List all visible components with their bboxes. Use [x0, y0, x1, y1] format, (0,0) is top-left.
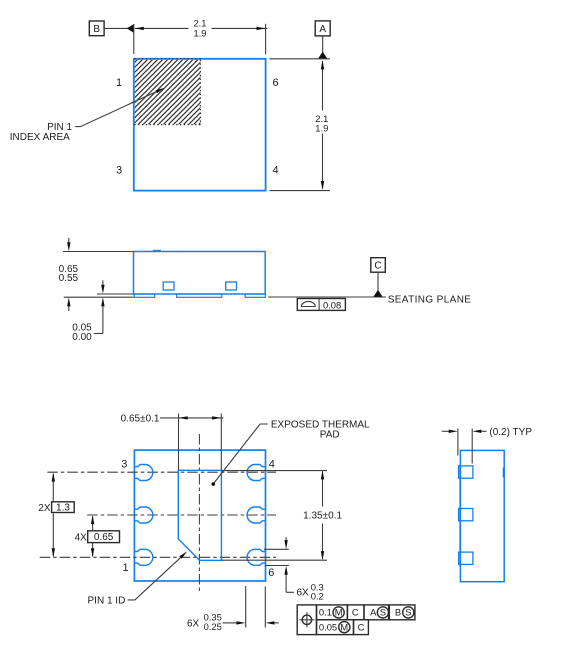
- dimension 1.35±0.1 line and arrows: [321, 470, 324, 560]
- svg-text:0.25: 0.25: [204, 621, 222, 632]
- pin 1 index area hatch: [135, 60, 201, 125]
- dimension 0.05/0.00 arrows: [94, 280, 105, 333]
- side view terminal right: [226, 282, 237, 290]
- feature control frame position tolerance: [297, 605, 415, 635]
- dimension 4X 0.65 line and arrows: [91, 515, 94, 557]
- dimension 6X 0.3/0.2 arrows and leader: [284, 537, 294, 592]
- bottom view package outline: [134, 450, 265, 581]
- center line pad row 2-5: [87, 514, 276, 516]
- exposed thermal pad outline with pin1 chamfer: [178, 470, 221, 560]
- extension line bottom-right corner: [270, 190, 331, 192]
- svg-text:A: A: [370, 607, 377, 618]
- svg-text:PIN 1 ID: PIN 1 ID: [88, 596, 126, 607]
- dimension 6X 0.35/0.25 extension lines: [245, 586, 247, 628]
- datum A leader line: [322, 36, 324, 53]
- center line vertical: [198, 434, 200, 591]
- side view lead tab middle: [177, 294, 222, 297]
- dimension 2.1/1.9 horizontal line: [135, 27, 268, 30]
- dimension (0.2) TYP arrows: [442, 430, 487, 433]
- svg-text:0.05: 0.05: [319, 622, 337, 633]
- dimension 6X 0.3/0.2 extension lines: [264, 548, 289, 550]
- svg-text:6: 6: [268, 567, 274, 579]
- detail view right edge tick: [503, 468, 505, 478]
- svg-text:0.65: 0.65: [94, 532, 114, 543]
- svg-text:M: M: [340, 623, 348, 633]
- extension line body bottom left: [97, 293, 134, 295]
- center line pad row 3-4: [47, 471, 276, 473]
- pad 3 (top left): [134, 465, 152, 481]
- detail view lead tab 2: [459, 509, 473, 521]
- datum C leader line: [377, 272, 379, 291]
- extension line left of top dimension: [133, 24, 135, 54]
- svg-text:PAD: PAD: [320, 430, 340, 441]
- side view package body: [134, 252, 266, 295]
- svg-text:0.00: 0.00: [72, 332, 92, 343]
- svg-text:INDEX AREA: INDEX AREA: [10, 132, 70, 143]
- detail view lead tab 1: [459, 466, 473, 478]
- datum B triangle: [127, 24, 134, 33]
- pad 6 (bottom right): [247, 549, 265, 565]
- side view lead tab right: [245, 294, 265, 297]
- detail view body: [460, 450, 504, 581]
- pad 2 (middle left): [134, 507, 152, 523]
- datum A symbol box: [315, 21, 330, 36]
- svg-text:4: 4: [272, 164, 278, 176]
- svg-text:1: 1: [122, 562, 128, 574]
- svg-text:6X: 6X: [297, 588, 310, 599]
- center line pad row 1-6: [40, 556, 276, 558]
- hatch boundary dotted edge top: [134, 58, 200, 60]
- seating plane line left: [64, 296, 134, 298]
- datum B symbol box: [89, 21, 104, 36]
- svg-text:SEATING PLANE: SEATING PLANE: [388, 295, 472, 306]
- extension line body top left: [63, 251, 133, 253]
- pin 1 index area leader: [75, 88, 164, 127]
- detail view lead side surface: [459, 465, 461, 567]
- pad 4 (top right): [247, 465, 265, 481]
- svg-text:C: C: [358, 622, 365, 633]
- svg-text:3: 3: [121, 459, 127, 471]
- dimension 0.65/0.55 arrows: [67, 238, 70, 311]
- svg-text:0.55: 0.55: [59, 273, 79, 284]
- svg-text:4: 4: [269, 459, 275, 471]
- side view mold tick on top edge: [153, 250, 161, 252]
- datum A triangle: [318, 52, 328, 59]
- svg-text:2X: 2X: [38, 503, 51, 514]
- pad 5 (middle right): [247, 507, 265, 523]
- svg-text:C: C: [352, 607, 359, 618]
- hatch boundary dotted edge bottom: [134, 124, 200, 126]
- dimension 2X 1.3 line and arrows: [52, 473, 55, 558]
- svg-text:1.9: 1.9: [315, 123, 328, 134]
- svg-text:6: 6: [272, 77, 278, 89]
- svg-text:1: 1: [116, 77, 122, 89]
- pad 1 (bottom left): [134, 549, 152, 565]
- svg-text:0.65±0.1: 0.65±0.1: [121, 413, 160, 424]
- dimension 2.1/1.9 vertical line: [321, 60, 324, 190]
- svg-text:1.35±0.1: 1.35±0.1: [303, 511, 342, 522]
- svg-text:0.08: 0.08: [323, 299, 341, 310]
- dimension 0.65±0.1 line and arrows: [160, 416, 224, 419]
- svg-text:S: S: [380, 608, 386, 618]
- svg-text:1.3: 1.3: [56, 503, 70, 514]
- feature control frame profile 0.08: [297, 299, 345, 311]
- dimension 6X 0.35/0.25 line and arrows: [223, 621, 279, 624]
- svg-text:4X: 4X: [75, 532, 88, 543]
- svg-text:6X: 6X: [187, 618, 200, 629]
- svg-text:3: 3: [116, 164, 122, 176]
- svg-text:B: B: [395, 607, 401, 618]
- dimension 0.65±0.1 extension lines: [178, 414, 180, 471]
- svg-text:0.2: 0.2: [311, 591, 324, 602]
- exposed thermal pad leader with dot: [211, 424, 268, 486]
- dimension 2X 1.3 text and box: [38, 502, 74, 514]
- side view lead tab left: [134, 294, 154, 297]
- dimension 4X 0.65 text and box: [75, 531, 120, 544]
- datum C symbol box: [371, 258, 386, 273]
- svg-text:M: M: [335, 608, 343, 618]
- detail view lead tab 3: [459, 552, 473, 564]
- seating plane line right: [268, 296, 386, 298]
- svg-text:B: B: [93, 24, 100, 35]
- svg-text:A: A: [319, 24, 326, 35]
- dimension 1.35±0.1 extension lines: [221, 470, 327, 472]
- top view package body outline: [134, 59, 266, 191]
- svg-text:S: S: [405, 608, 411, 618]
- dimension (0.2) TYP extension lines: [457, 429, 459, 456]
- side view terminal left: [163, 282, 174, 290]
- svg-text:C: C: [374, 261, 381, 272]
- datum C triangle: [373, 290, 382, 297]
- datum B leader line: [104, 27, 127, 29]
- hatch boundary dotted edge right: [199, 60, 201, 125]
- svg-text:(0.2) TYP: (0.2) TYP: [489, 427, 532, 438]
- extension line top-right corner: [270, 58, 331, 60]
- pin 1 id leader: [128, 551, 188, 600]
- svg-text:1.9: 1.9: [193, 28, 206, 39]
- svg-text:0.1: 0.1: [319, 607, 332, 618]
- extension line right of top dimension: [265, 24, 267, 55]
